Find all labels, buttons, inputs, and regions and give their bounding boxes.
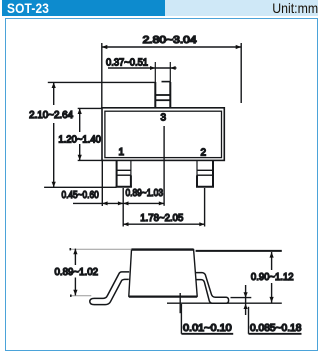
svg-text:2: 2 (201, 148, 207, 159)
arrow at pin3 left edge (150, 66, 155, 70)
header bar dark blue with SOT-23 (2, 0, 165, 16)
dim line 1.78~2.05 (123, 223, 204, 225)
arrow up to seating (244, 304, 248, 309)
leader 0.01~0.10 (181, 304, 233, 334)
svg-text:3: 3 (161, 112, 167, 123)
svg-text:0.90~1.12: 0.90~1.12 (251, 272, 294, 283)
dim line 0.89~1.02 vertical (74, 249, 76, 296)
svg-text:0.45~0.60: 0.45~0.60 (62, 190, 100, 201)
bowtie arrows at pin1 center (118, 201, 123, 205)
arrow left at body edge (102, 201, 107, 205)
svg-text:0.89~1.03: 0.89~1.03 (126, 188, 164, 199)
tick at left ext start (69, 248, 72, 297)
svg-text:1.78~2.05: 1.78~2.05 (140, 213, 183, 224)
header bar light blue with Unit:mm (165, 0, 318, 16)
extension line top for 2.10~2.64 (48, 81, 156, 83)
arrow left of 2.80~3.04 (102, 45, 108, 49)
svg-text:0.89~1.02: 0.89~1.02 (55, 267, 99, 278)
svg-text:1.20~1.40: 1.20~1.40 (58, 134, 101, 145)
pin 2 rung lower (197, 174, 213, 176)
arrow down to foot top (244, 292, 248, 297)
body outline side view (129, 250, 197, 297)
pin 3 lead right edge (169, 62, 171, 108)
body bottom edge thick (129, 296, 197, 298)
dim line 0.37~0.51 (108, 67, 177, 69)
dim line 2.10~2.64 vertical (53, 82, 55, 187)
dim line 0.90~1.12 vertical (271, 252, 273, 303)
lead thickness tick 0.085~0.18 (245, 285, 247, 315)
arrow down 2.10~2.64 (52, 182, 56, 188)
pin 1 rung lower (117, 174, 131, 176)
body top edge thick (132, 248, 194, 250)
pin 3 bend rung middle (155, 94, 170, 96)
standoff tick 0.01~0.10 (179, 293, 181, 313)
svg-text:2.80~3.04: 2.80~3.04 (143, 35, 198, 46)
pin 1 left edge (116, 160, 118, 187)
extension line bottom for 1.20~1.40 (78, 159, 102, 161)
arrow up 0.89~1.02 (73, 249, 77, 255)
pin 1 rung upper (117, 169, 131, 171)
right lead gull wing (196, 273, 229, 304)
package body outer rectangle (102, 108, 224, 161)
leader 0.085~0.18 (249, 307, 302, 334)
top extension line left gray (70, 248, 131, 250)
arrow at pin3 right edge (170, 66, 175, 70)
pin 2 bottom edge (196, 186, 214, 188)
dim line 1.20~1.40 vertical (79, 108, 81, 160)
pin 1 bottom edge (116, 186, 132, 188)
dim line 2.80~3.04 (102, 46, 241, 48)
pin 3 bend rung upper (162, 81, 171, 83)
svg-text:0.37~0.51: 0.37~0.51 (106, 57, 148, 68)
pin 2 rung upper (197, 169, 213, 171)
bottom extension line left gray (71, 295, 92, 297)
svg-text:0.01~0.10: 0.01~0.10 (183, 323, 232, 334)
svg-text:2.10~2.64: 2.10~2.64 (29, 110, 73, 121)
extension line left for 2.80~3.04 (101, 43, 103, 108)
left lead gull wing (90, 272, 129, 305)
arrow up 1.20~1.40 (78, 108, 82, 114)
arrow up 0.90~1.12 (270, 252, 274, 258)
extension line pin2 center (204, 188, 206, 227)
svg-text:1: 1 (119, 147, 125, 158)
svg-text:0.085~0.18: 0.085~0.18 (250, 323, 302, 334)
arrow down 1.20~1.40 (78, 155, 82, 161)
arrow down 0.90~1.12 (270, 297, 274, 303)
leader line from 3 (163, 126, 165, 206)
extension line body left edge down (101, 160, 103, 206)
package body inner rectangle (105, 111, 222, 157)
extension line right for 2.80~3.04 (240, 43, 242, 103)
arrow right at pin3 center (159, 201, 164, 205)
extension line bottom for 2.10~2.64 (44, 186, 117, 188)
pin 3 lead left edge (154, 62, 156, 108)
extension line pin1 center (122, 188, 124, 227)
arrow down 0.89~1.02 (73, 290, 77, 296)
foot top extension line (231, 297, 252, 299)
pin 2 right edge (212, 160, 214, 187)
extension line top for 1.20~1.40 (78, 107, 102, 109)
arrow right 1.78~2.05 (199, 222, 204, 226)
pin 3 bend rung lower (155, 99, 170, 101)
arrow left 1.78~2.05 (123, 222, 128, 226)
seating plane line (167, 302, 282, 304)
pin 1 right edge (130, 160, 132, 187)
arrow up 2.10~2.64 (52, 82, 56, 88)
arrow right of 2.80~3.04 (236, 45, 242, 49)
top extension line right thick (196, 250, 282, 252)
dim row 0.45~0.60 / 0.89~1.03 (73, 202, 164, 204)
pin 2 left edge (196, 160, 198, 187)
